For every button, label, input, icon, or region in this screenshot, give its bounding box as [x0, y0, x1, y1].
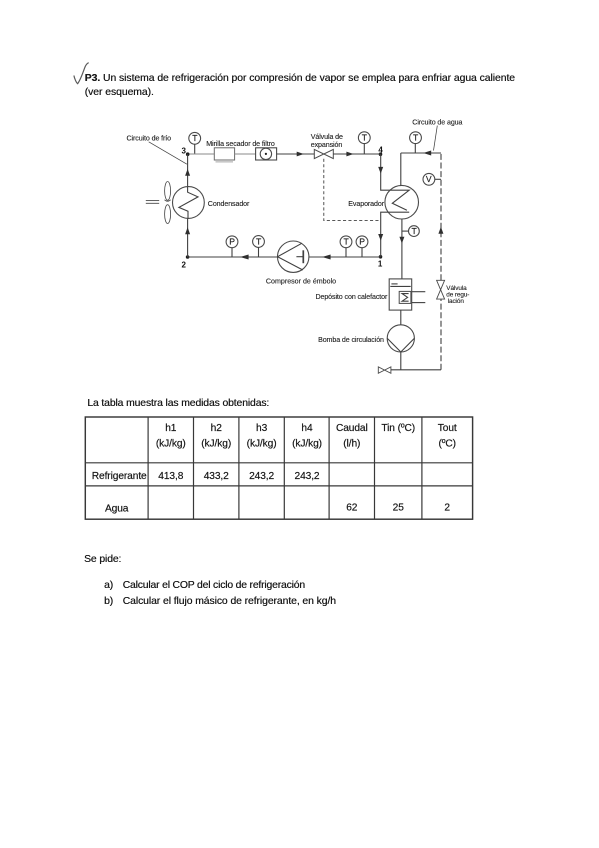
temperature sensor T water inlet: [410, 132, 422, 153]
temperature sensor T on suction line: [340, 236, 352, 257]
svg-text:2: 2: [444, 502, 450, 513]
regulation valve: [437, 280, 445, 299]
svg-text:2: 2: [182, 261, 187, 270]
svg-text:Tin (ºC): Tin (ºC): [381, 423, 415, 434]
svg-text:(ºC): (ºC): [438, 439, 455, 450]
svg-text:413,8: 413,8: [158, 471, 183, 482]
node 2: [182, 255, 190, 269]
svg-text:T: T: [413, 133, 419, 143]
table row Refrigerante: [92, 471, 320, 482]
pressure sensor P on suction line: [356, 236, 368, 257]
svg-text:Mirilla secador de filtro: Mirilla secador de filtro: [206, 140, 275, 148]
temperature sensor T before node 4: [358, 132, 370, 154]
svg-text:h4: h4: [301, 423, 313, 434]
measurement table grid: [85, 417, 472, 519]
temperature sensor T on discharge line: [253, 236, 265, 257]
svg-text:Agua: Agua: [105, 503, 129, 514]
drain valve: [378, 367, 391, 373]
wire evaporator outlet down to node 1 with flow arrow: [378, 212, 388, 257]
water supply line (top) with flow arrow: [401, 151, 441, 156]
pump (bomba de circulacion): [387, 325, 414, 352]
svg-text:243,2: 243,2: [295, 471, 320, 482]
wire node 4 down to evaporator inlet with flow arrow: [378, 154, 389, 190]
svg-text:(kJ/kg): (kJ/kg): [292, 439, 322, 450]
svg-text:T: T: [256, 236, 262, 246]
svg-text:Compresor de émbolo: Compresor de émbolo: [266, 278, 336, 286]
svg-text:h3: h3: [256, 423, 268, 434]
node 3: [182, 147, 190, 156]
svg-text:(kJ/kg): (kJ/kg): [201, 439, 231, 450]
svg-text:1: 1: [378, 259, 383, 268]
svg-text:Refrigerante: Refrigerante: [92, 471, 147, 482]
svg-text:4: 4: [378, 146, 383, 155]
svg-text:T: T: [412, 226, 418, 236]
wire filter drier to expansion valve with flow arrow: [277, 152, 315, 157]
expansion valve: [314, 149, 333, 158]
node 1: [378, 255, 383, 268]
wire liquid line node3 to sight glass: [189, 153, 214, 155]
handwritten checkmark: [74, 63, 89, 84]
svg-text:(kJ/kg): (kJ/kg): [247, 439, 277, 450]
svg-text:Tout: Tout: [438, 423, 457, 434]
paragraph line 1-2: [85, 72, 515, 101]
sight glass (mirilla): [214, 148, 234, 162]
wire node 2 up to condenser with flow arrow: [185, 218, 190, 257]
svg-text:Evaporador: Evaporador: [348, 200, 384, 208]
svg-text:T: T: [362, 133, 368, 143]
flow meter V with link line: [423, 173, 441, 185]
filter drier: [256, 148, 277, 160]
se pide: [84, 554, 121, 565]
item a: [104, 580, 113, 591]
water line into evaporator top: [400, 153, 402, 186]
svg-text:(kJ/kg): (kJ/kg): [156, 439, 186, 450]
suction line node 1 to compressor with flow arrow: [309, 255, 380, 260]
item b: [104, 596, 113, 607]
tank with heater (deposito): [389, 279, 425, 310]
wire condenser up to node 3 with flow arrow: [185, 154, 190, 187]
svg-text:(l/h): (l/h): [343, 439, 360, 450]
svg-text:62: 62: [346, 502, 358, 513]
svg-text:243,2: 243,2: [249, 471, 274, 482]
svg-text:Válvula de: Válvula de: [311, 133, 343, 141]
table header row: [156, 423, 457, 449]
svg-text:3: 3: [182, 147, 187, 156]
svg-text:T: T: [344, 237, 350, 247]
label Circuito de frio with pointer line: [127, 134, 187, 164]
water line evaporator bottom to tank with flow arrow: [399, 219, 404, 279]
svg-text:Circuito de agua: Circuito de agua: [412, 118, 462, 126]
svg-text:h1: h1: [165, 423, 177, 434]
node 4: [378, 146, 383, 156]
water return line (dashed) upper segment with flow arrow: [438, 153, 443, 280]
fan: [146, 182, 171, 224]
label Compresor de embolo: [266, 278, 336, 286]
svg-text:P: P: [229, 237, 235, 247]
svg-text:lación: lación: [448, 298, 465, 305]
TEV sensing line (dashed) from expansion valve to evaporator outlet: [324, 159, 379, 221]
svg-text:Depósito con calefactor: Depósito con calefactor: [315, 293, 388, 301]
wire pump to bottom water line: [400, 352, 402, 370]
svg-text:P: P: [359, 237, 365, 247]
condenser: [173, 187, 205, 219]
temperature sensor T water outlet: [402, 226, 419, 237]
compressor: [278, 241, 309, 272]
svg-text:Condensador: Condensador: [208, 200, 250, 208]
label Bomba de circulacion: [318, 336, 384, 344]
evaporator: [385, 185, 419, 219]
wire sight glass to filter drier: [235, 153, 256, 155]
svg-text:expansión: expansión: [311, 141, 343, 149]
label Condensador: [208, 200, 250, 208]
svg-text:h2: h2: [211, 423, 223, 434]
svg-text:V: V: [426, 174, 432, 184]
table intro: [87, 398, 269, 409]
svg-text:Circuito de frío: Circuito de frío: [127, 134, 172, 142]
table row Agua: [105, 502, 450, 514]
label Mirilla secador de filtro: [206, 140, 275, 148]
discharge line compressor to node 2 with flow arrow: [188, 255, 278, 260]
svg-text:Caudal: Caudal: [336, 423, 368, 434]
svg-text:T: T: [192, 133, 198, 143]
svg-text:25: 25: [393, 502, 405, 513]
water return line (dashed) lower segment: [440, 300, 442, 370]
bottom water line: [391, 369, 441, 371]
pressure sensor P on discharge line: [226, 236, 238, 257]
label Evaporador: [348, 200, 384, 208]
svg-text:433,2: 433,2: [204, 471, 229, 482]
label Circuito de agua with pointer line: [412, 118, 462, 150]
svg-text:Bomba de circulación: Bomba de circulación: [318, 336, 384, 344]
temperature sensor T on liquid line at node 3: [189, 132, 201, 154]
wire expansion valve to node 4 with flow arrow: [333, 152, 380, 157]
label Valvula de regulacion: [446, 285, 469, 305]
label Valvula de expansion: [311, 133, 343, 149]
wire tank to pump: [400, 310, 402, 325]
label Deposito con calefactor: [315, 293, 388, 301]
